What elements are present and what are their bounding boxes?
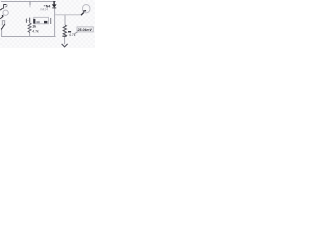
svg-text:4.7k: 4.7k [32,29,39,33]
svg-text:m414: m414 [40,7,48,11]
svg-text:4.7k: 4.7k [69,33,76,37]
svg-text:25.04mV: 25.04mV [77,28,93,32]
svg-text:1k: 1k [32,24,36,28]
